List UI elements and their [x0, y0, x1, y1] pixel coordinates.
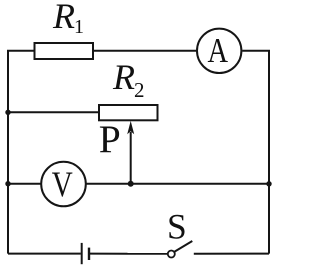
svg-text:A: A — [207, 31, 228, 70]
switch S pivot circle — [168, 251, 175, 258]
svg-text:R: R — [52, 0, 75, 36]
wire top rail left segment — [7, 50, 35, 52]
resistor R1 — [35, 43, 94, 59]
ammeter U=A circle — [197, 29, 241, 73]
battery long plate — [81, 243, 83, 264]
wire top rail right segment — [242, 50, 270, 52]
svg-text:R: R — [112, 57, 135, 97]
junction node wiper-V rail — [128, 181, 134, 187]
wire right vertical — [268, 51, 270, 254]
switch S blade — [175, 241, 193, 252]
svg-text:2: 2 — [134, 78, 145, 102]
svg-text:P: P — [99, 117, 121, 161]
wire left vertical — [7, 51, 9, 254]
svg-text:1: 1 — [74, 16, 84, 38]
junction node left-V rail — [5, 181, 10, 186]
svg-text:S: S — [167, 206, 187, 246]
battery short plate — [88, 248, 90, 260]
wire bottom rail left segment — [8, 253, 81, 255]
svg-text:V: V — [52, 164, 73, 204]
wire bottom rail right segment — [194, 253, 269, 255]
voltmeter circle — [41, 162, 86, 207]
wire wiper vertical — [130, 132, 132, 184]
wire V rail left segment — [8, 183, 42, 185]
wire V rail right segment — [87, 183, 270, 185]
wire R2 rail — [8, 111, 99, 113]
resistor R2 (rheostat track) — [99, 105, 158, 120]
rheostat wiper arrow head — [127, 121, 134, 134]
junction node right-V rail — [266, 181, 271, 186]
wire top rail middle segment — [93, 50, 196, 52]
wire bottom rail middle segment — [90, 253, 167, 255]
junction node left-R2 rail — [5, 110, 10, 115]
